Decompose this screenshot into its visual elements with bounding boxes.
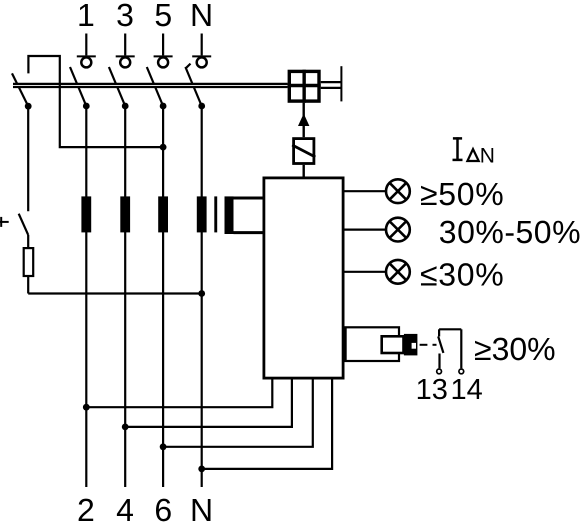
svg-text:2: 2 xyxy=(77,492,95,522)
svg-text:3: 3 xyxy=(116,0,134,33)
svg-text:14: 14 xyxy=(450,374,482,406)
svg-text:N: N xyxy=(190,492,213,522)
svg-text:≥30%: ≥30% xyxy=(474,331,556,367)
svg-text:6: 6 xyxy=(154,492,172,522)
svg-text:N: N xyxy=(480,144,495,167)
svg-text:≥50%: ≥50% xyxy=(420,176,504,212)
svg-text:13: 13 xyxy=(416,374,448,406)
svg-text:≤30%: ≤30% xyxy=(420,256,504,292)
svg-text:4: 4 xyxy=(116,492,134,522)
svg-text:5: 5 xyxy=(154,0,172,33)
svg-text:N: N xyxy=(190,0,213,33)
svg-text:1: 1 xyxy=(77,0,95,33)
svg-text:30%-50%: 30%-50% xyxy=(439,214,580,250)
